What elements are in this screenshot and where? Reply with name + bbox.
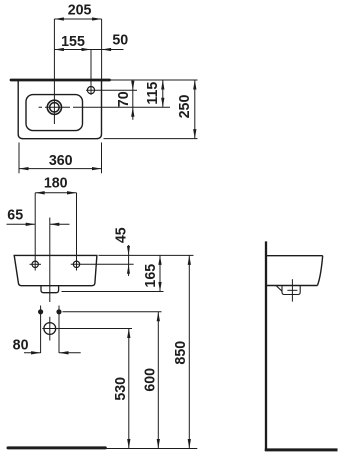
svg-text:205: 205: [68, 2, 92, 18]
svg-text:850: 850: [173, 341, 189, 365]
svg-text:600: 600: [142, 368, 158, 392]
svg-text:65: 65: [7, 207, 23, 223]
svg-text:180: 180: [44, 175, 68, 191]
svg-text:360: 360: [49, 153, 73, 169]
svg-text:530: 530: [113, 377, 129, 401]
svg-text:70: 70: [116, 91, 132, 107]
svg-text:155: 155: [61, 34, 85, 50]
svg-text:50: 50: [112, 32, 128, 48]
svg-text:45: 45: [113, 227, 129, 243]
svg-text:165: 165: [143, 264, 159, 288]
svg-text:250: 250: [177, 95, 193, 119]
svg-text:115: 115: [144, 82, 160, 105]
svg-text:80: 80: [13, 337, 29, 353]
